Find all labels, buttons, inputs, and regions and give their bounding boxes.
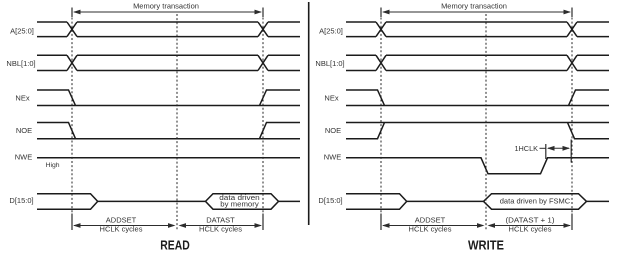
svg-text:HCLK cycles: HCLK cycles <box>509 224 552 233</box>
svg-text:NOE: NOE <box>16 126 32 135</box>
svg-text:HCLK cycles: HCLK cycles <box>199 224 242 233</box>
DATAST arrow (left) <box>179 216 263 234</box>
dashed line t0 (left) <box>71 18 73 214</box>
svg-text:NEx: NEx <box>324 94 338 103</box>
svg-text:READ: READ <box>160 237 190 252</box>
memory transaction annotation (left) <box>72 1 263 17</box>
signal NEx waveform (right) <box>346 90 609 106</box>
signal NEx waveform (left) <box>37 90 300 106</box>
ADDSET arrow (left) <box>73 216 176 234</box>
svg-text:NBL[1:0]: NBL[1:0] <box>315 59 344 68</box>
svg-text:A[25:0]: A[25:0] <box>10 27 34 36</box>
svg-text:DATAST: DATAST <box>206 216 235 225</box>
bus D[15:0] waveform (right) <box>346 194 609 210</box>
dashed line t-end (left) <box>262 18 264 214</box>
svg-text:Memory transaction: Memory transaction <box>441 1 507 10</box>
signal NWE waveform (right, low pulse) <box>346 158 609 174</box>
dashed line mid (right) <box>485 14 487 231</box>
bus A[25:0] waveform (right) <box>346 22 609 37</box>
1HCLK annotation <box>514 140 571 163</box>
svg-text:NWE: NWE <box>15 153 33 162</box>
bus NBL[1:0] waveform (left) <box>37 55 300 70</box>
signal NWE waveform (left, stays high) <box>37 157 300 159</box>
dashed line t-end (right) <box>571 18 573 214</box>
svg-text:data driven by FSMC: data driven by FSMC <box>500 197 571 206</box>
svg-text:Memory transaction: Memory transaction <box>133 1 199 10</box>
divider line <box>308 2 310 225</box>
DATAST+1 arrow (right) <box>488 216 572 234</box>
signal NOE waveform (left) <box>37 123 300 139</box>
svg-text:WRITE: WRITE <box>468 237 504 252</box>
svg-text:NBL[1:0]: NBL[1:0] <box>6 59 35 68</box>
svg-text:ADDSET: ADDSET <box>415 216 446 225</box>
svg-text:HCLK cycles: HCLK cycles <box>409 224 452 233</box>
svg-text:NWE: NWE <box>324 153 342 162</box>
svg-text:NEx: NEx <box>15 94 29 103</box>
ADDSET arrow (right) <box>382 216 485 234</box>
bus A[25:0] waveform (left) <box>37 22 300 37</box>
svg-text:HCLK cycles: HCLK cycles <box>100 224 143 233</box>
svg-text:ADDSET: ADDSET <box>106 216 137 225</box>
bottom ticks (left) <box>72 214 263 231</box>
dashed line t0 (right) <box>380 18 382 214</box>
svg-text:A[25:0]: A[25:0] <box>319 27 343 36</box>
data hexagon (data driven by memory) <box>206 194 279 210</box>
svg-text:High: High <box>46 162 60 169</box>
svg-text:(DATAST + 1): (DATAST + 1) <box>506 216 556 225</box>
svg-text:by memory: by memory <box>220 200 259 209</box>
dashed line mid (left) <box>176 14 178 231</box>
svg-text:NOE: NOE <box>325 126 341 135</box>
signal NOE waveform (right, high during write) <box>346 123 609 139</box>
bottom ticks (right) <box>381 214 572 231</box>
bus NBL[1:0] waveform (right) <box>346 55 609 70</box>
bus D[15:0] waveform (left) <box>37 194 300 210</box>
svg-text:D[15:0]: D[15:0] <box>9 196 33 205</box>
svg-text:D[15:0]: D[15:0] <box>318 196 342 205</box>
svg-text:1HCLK: 1HCLK <box>514 144 538 153</box>
memory transaction annotation (right) <box>381 1 572 17</box>
data hexagon (data driven by FSMC) <box>484 194 587 210</box>
